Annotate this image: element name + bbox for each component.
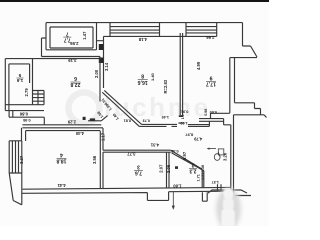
- divider bottom jamb: [179, 115, 183, 117]
- toilet symbol room 1: [207, 148, 224, 161]
- svg-text:4: 4: [60, 152, 63, 158]
- lobby lines left: [5, 105, 101, 125]
- bottom right vertical wall: [231, 115, 234, 196]
- bottom right wing: [208, 190, 251, 196]
- label room 3: [134, 164, 143, 176]
- svg-text:0.86: 0.86: [19, 111, 28, 116]
- balcony hatch bottom left: [9, 141, 22, 173]
- entrance arrow: [172, 192, 174, 207]
- room 4 left wall upper: [22, 128, 26, 141]
- diagonal corridor wall D1: [102, 90, 141, 126]
- svg-text:2.06: 2.06: [166, 164, 171, 173]
- svg-text:0.98: 0.98: [204, 109, 208, 116]
- hatch grid room5/6: [33, 91, 45, 105]
- svg-text:4.18: 4.18: [138, 37, 147, 42]
- black jamb A: [99, 44, 104, 50]
- svg-text:8: 8: [141, 73, 144, 79]
- svg-text:1.47: 1.47: [82, 31, 87, 40]
- svg-text:0.42: 0.42: [171, 149, 178, 153]
- svg-text:3.37: 3.37: [19, 155, 24, 164]
- door jamb diag room6: [101, 116, 107, 121]
- room 6 right wall: [99, 57, 101, 102]
- svg-text:2.00: 2.00: [94, 69, 99, 78]
- svg-text:4.40: 4.40: [75, 131, 84, 136]
- svg-text:4.99: 4.99: [196, 61, 201, 70]
- hall north walls: [139, 121, 209, 126]
- label room 4: [56, 152, 66, 164]
- svg-text:1.38: 1.38: [201, 165, 205, 172]
- room 4 right wall: [100, 128, 103, 188]
- svg-text:3: 3: [137, 164, 140, 170]
- top black bar: [0, 0, 269, 2]
- room 7 bottom wall: [46, 48, 97, 50]
- svg-text:8,97: 8,97: [185, 133, 194, 138]
- watermark statue blob bottom right: [216, 188, 241, 230]
- room 3 west wall: [102, 152, 104, 188]
- wall between rooms 3 and 2: [167, 152, 170, 188]
- label room 9: [206, 75, 216, 87]
- svg-text:6: 6: [74, 75, 77, 81]
- svg-text:0.81: 0.81: [124, 119, 131, 123]
- svg-text:9: 9: [209, 75, 212, 81]
- top wall inner line: [104, 35, 217, 37]
- window W2 room 9: [186, 23, 217, 37]
- label room 5: [16, 73, 23, 83]
- room 6 bottom door piece: [88, 120, 101, 122]
- svg-text:3.56: 3.56: [92, 155, 97, 164]
- label room 2: [189, 162, 197, 174]
- right step notch: [234, 103, 267, 118]
- svg-text:2.66: 2.66: [206, 35, 215, 40]
- label room 6: [70, 75, 80, 87]
- svg-text:1.17: 1.17: [100, 132, 105, 141]
- svg-text:R=2.83: R=2.83: [163, 79, 168, 93]
- balcony slanted end: [9, 173, 22, 205]
- svg-text:2: 2: [191, 162, 194, 168]
- svg-text:1.49: 1.49: [162, 115, 169, 119]
- bath walls right of divider: [179, 119, 224, 123]
- room 2 east wall: [202, 169, 204, 188]
- svg-text:1.60: 1.60: [173, 184, 182, 189]
- label room 7: [63, 31, 71, 43]
- black jamb B: [99, 58, 104, 64]
- svg-text:2.29: 2.29: [67, 120, 76, 125]
- svg-text:1.0: 1.0: [181, 114, 185, 119]
- watermark circle logo: [69, 93, 100, 124]
- svg-text:1.40: 1.40: [150, 72, 155, 81]
- room 7 top inner: [50, 26, 93, 28]
- right exterior top flag: [230, 23, 257, 114]
- room 4 left wall lower: [21, 141, 23, 205]
- svg-text:1.60: 1.60: [180, 121, 187, 125]
- svg-text:4.31: 4.31: [150, 142, 159, 147]
- svg-text:4.79: 4.79: [193, 137, 202, 142]
- svg-text:2.07: 2.07: [159, 164, 164, 173]
- room 7 right wall: [93, 23, 97, 50]
- room 7 left wall: [46, 23, 50, 50]
- svg-text:4.41: 4.41: [57, 183, 66, 188]
- svg-text:1.21: 1.21: [201, 173, 205, 180]
- wall between room7/room8: [97, 36, 104, 88]
- left outer corner step: [42, 38, 47, 57]
- svg-text:3.19: 3.19: [68, 58, 77, 63]
- black jamb room6 door: [90, 118, 95, 120]
- door tick U2: [218, 184, 222, 191]
- svg-text:5: 5: [18, 73, 21, 78]
- svg-text:6.97: 6.97: [182, 151, 187, 160]
- svg-text:0.91: 0.91: [181, 109, 188, 113]
- top exterior wall outer: [46, 22, 243, 24]
- svg-text:3.26: 3.26: [223, 152, 228, 161]
- svg-text:0.98: 0.98: [23, 118, 30, 122]
- room 4 top wall: [22, 128, 103, 131]
- wall between rooms 8 and 9: [180, 33, 182, 115]
- room 5 balcony walls: [5, 59, 32, 111]
- room 2 chamfer NE: [171, 150, 204, 170]
- black jamb room 2 door: [175, 166, 178, 169]
- door tick U1: [202, 192, 207, 201]
- bottom wall outer: [22, 191, 231, 200]
- svg-text:1.71: 1.71: [196, 174, 200, 181]
- svg-text:0.60: 0.60: [210, 110, 217, 114]
- svg-text:7: 7: [66, 31, 69, 37]
- black jamb room6 door left: [83, 117, 86, 120]
- label room 8: [138, 73, 148, 85]
- room 3 top wall: [103, 150, 171, 152]
- svg-text:0.73: 0.73: [143, 119, 150, 123]
- svg-text:me: me: [168, 92, 211, 122]
- svg-text:3.14: 3.14: [104, 62, 109, 71]
- room 6 top wall: [5, 57, 100, 59]
- bottom wall inner: [23, 187, 231, 189]
- svg-text:3.77: 3.77: [127, 151, 136, 156]
- svg-text:2.79: 2.79: [24, 88, 29, 97]
- window W1 room 8: [110, 23, 160, 37]
- svg-text:1.37: 1.37: [212, 180, 219, 184]
- svg-text:2.59: 2.59: [70, 41, 79, 46]
